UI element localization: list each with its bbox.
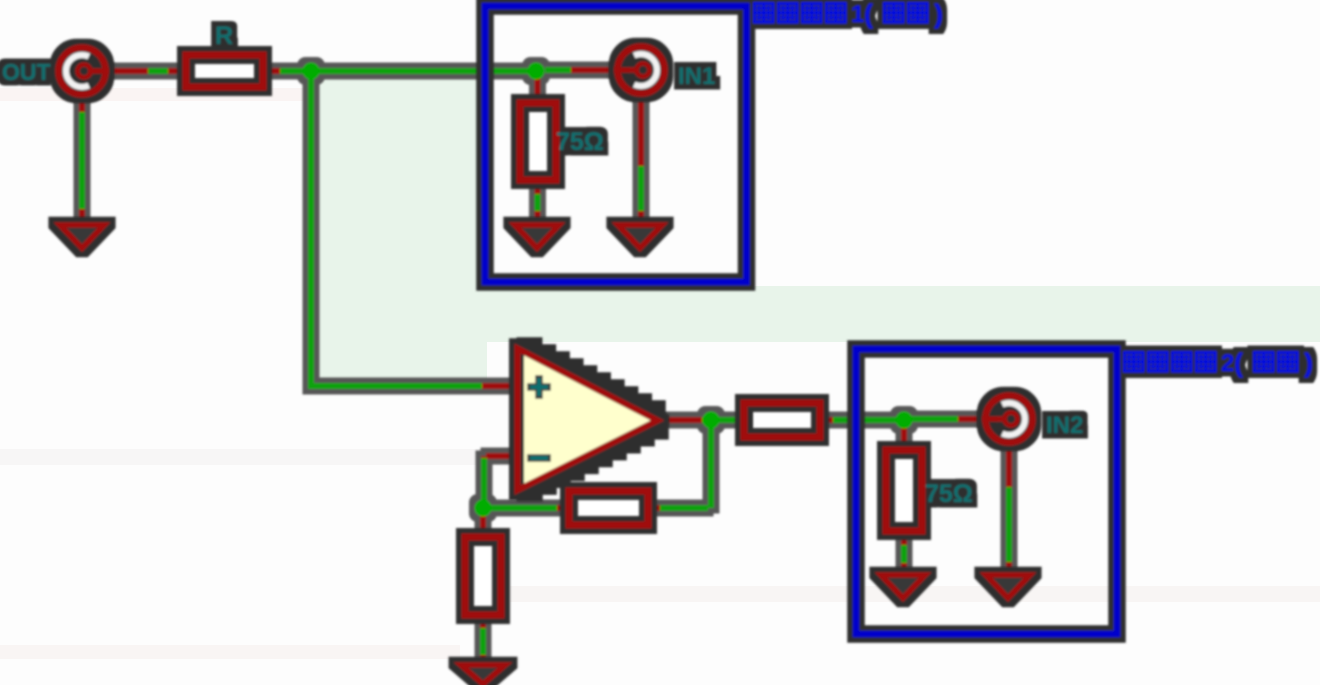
wire OUT down to ground: [79, 94, 85, 226]
resistor 75R (circuit 2): [886, 450, 922, 531]
wire bottom resistor to ground: [480, 615, 486, 666]
wire output resistor to node E: [820, 417, 906, 423]
ground (below IN1): [618, 225, 662, 248]
label: receiver circuit 1 (existing): [754, 0, 943, 29]
svg-text:2: 2: [1221, 350, 1234, 377]
label: receiver circuit 2 (added): [1124, 348, 1313, 378]
wire node A down and to op-amp + input: [308, 75, 519, 386]
wire OUT to resistor R: [88, 68, 186, 74]
node E junction: [896, 412, 913, 429]
svg-text:75Ω: 75Ω: [925, 480, 973, 508]
svg-text:): ): [1304, 348, 1313, 378]
wire node E down to 75R: [901, 424, 907, 451]
wire node C to feedback resistor: [490, 505, 569, 511]
feedback resistor interior: [569, 491, 648, 525]
op-amp - input mark: [531, 454, 547, 462]
op-amp U1 stepped shadow bottom edge: [522, 426, 662, 495]
op-amp U1 outline: [518, 349, 658, 491]
op-amp U1 inner fill: [524, 356, 651, 484]
feedback resistor: [569, 491, 648, 525]
ground (below OUT): [60, 225, 104, 248]
svg-text:75Ω: 75Ω: [556, 128, 604, 156]
svg-text:R: R: [215, 22, 233, 50]
frame: receiver circuit 2 (added): [856, 349, 1117, 634]
wire resistor R to node A and into frame 1: [263, 68, 538, 74]
wire node B to port IN1: [545, 67, 622, 73]
frame: receiver circuit 1 (existing): [485, 6, 747, 282]
svg-text:(: (: [1234, 348, 1243, 378]
wire 75R to ground (frame 1): [535, 180, 541, 226]
svg-text:): ): [934, 0, 943, 29]
node B junction: [528, 63, 545, 80]
svg-text:IN2: IN2: [1046, 412, 1083, 439]
resistor to ground interior: [465, 537, 501, 615]
wire feedback resistor to node D: [648, 424, 711, 508]
svg-text:1: 1: [851, 1, 864, 28]
port OUT: [66, 55, 98, 87]
svg-text:OUT: OUT: [2, 59, 51, 85]
node D junction: [703, 412, 720, 429]
svg-text:(: (: [864, 0, 873, 29]
op-amp + input mark: [531, 379, 547, 395]
node C junction: [475, 500, 492, 517]
resistor to ground: [465, 537, 501, 615]
resistor 75R (circuit 2) interior: [886, 450, 922, 531]
ground (below 75R, circuit 2): [881, 575, 925, 598]
resistor 75R (circuit 1) interior: [520, 103, 556, 180]
wire IN1 down to ground: [638, 94, 644, 226]
resistor R: [186, 55, 263, 87]
output series resistor interior: [744, 403, 820, 437]
wire node B down to 75R: [535, 75, 541, 104]
wire node C down to resistor: [480, 512, 486, 538]
wire 75R to ground (frame 2): [901, 531, 907, 577]
wire op-amp output to node D: [657, 417, 746, 423]
op-amp U1 stepped shadow top edge: [522, 344, 659, 414]
resistor R interior: [186, 55, 263, 87]
svg-text:IN1: IN1: [678, 63, 715, 90]
output series resistor: [744, 403, 820, 437]
port IN2: [993, 403, 1025, 435]
ground (below 75R, circuit 1): [515, 225, 559, 248]
ground (below IN2): [986, 575, 1030, 598]
wire node E to port IN2: [906, 416, 990, 422]
wire IN2 down to ground: [1006, 443, 1012, 576]
port IN1: [625, 54, 657, 86]
node A junction: [303, 63, 320, 80]
ground (bottom resistor): [461, 665, 505, 684]
wire op-amp - input to node C: [484, 456, 519, 504]
resistor 75R (circuit 1): [520, 103, 556, 180]
